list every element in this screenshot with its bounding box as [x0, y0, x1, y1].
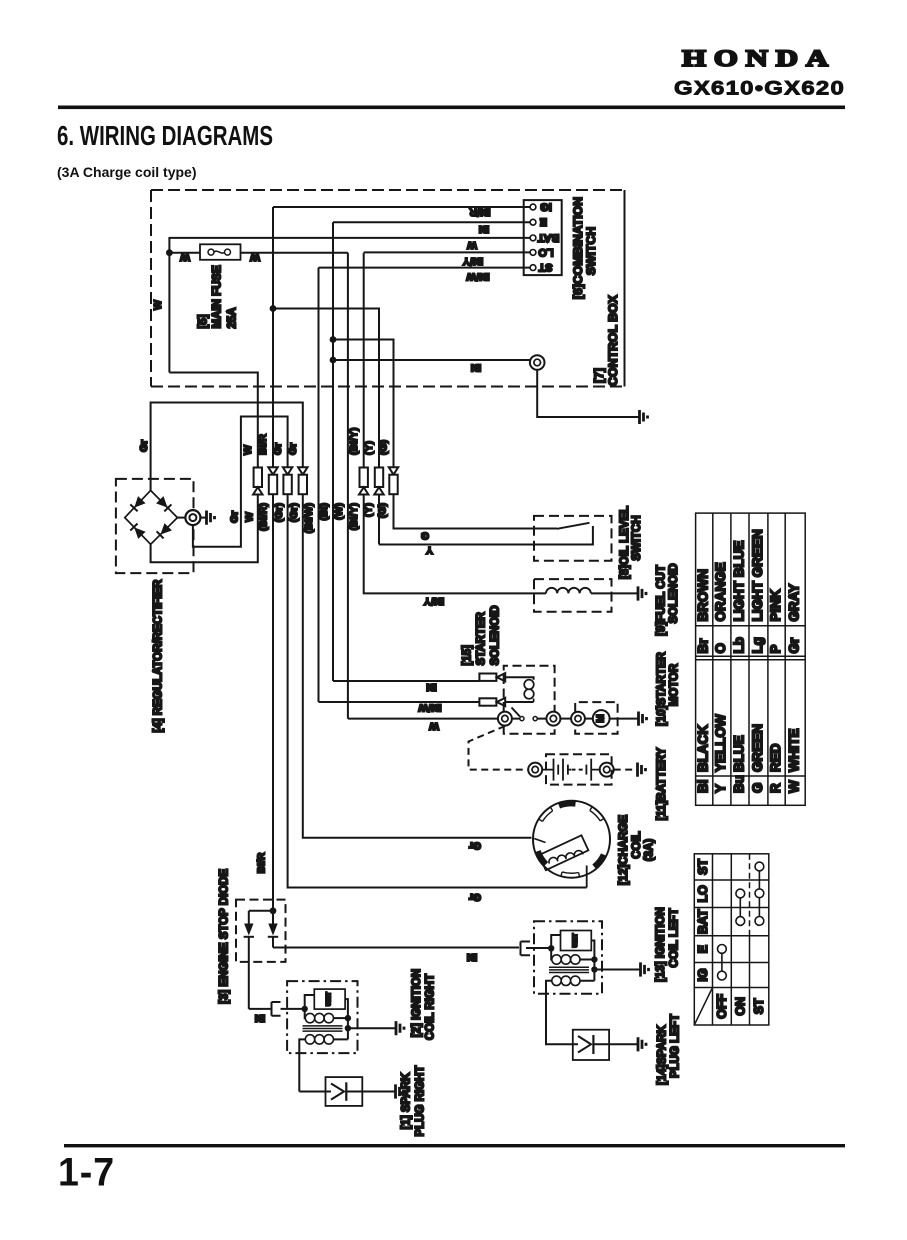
svg-text:BI/W: BI/W — [466, 271, 489, 283]
bullet connector Gr2 (triangle+rect) — [298, 467, 307, 474]
wire colour legend table — [696, 513, 806, 805]
spark plug left symbol — [578, 1036, 591, 1053]
bullet connector Gr1 (triangle+rect) — [283, 467, 292, 474]
diode link bar — [249, 910, 273, 912]
svg-text:6. WIRING DIAGRAMS: 6. WIRING DIAGRAMS — [57, 120, 273, 151]
svg-text:[7]: [7] — [592, 368, 606, 383]
wire BI into solenoid — [505, 677, 533, 680]
terminal E — [530, 219, 536, 225]
svg-text:IG: IG — [696, 968, 710, 981]
bullet connector BI/R (triangle+rect) — [268, 467, 277, 474]
engine stop diode [3] dashed box — [236, 900, 286, 962]
svg-text:[3] ENGINE STOP DIODE: [3] ENGINE STOP DIODE — [219, 868, 231, 1003]
svg-text:BAT: BAT — [537, 231, 559, 243]
UNIT right rail (coil right) — [345, 999, 348, 1039]
svg-text:Gr: Gr — [287, 443, 299, 455]
svg-text:(Gr): (Gr) — [288, 503, 300, 522]
svg-text:ST: ST — [538, 261, 552, 273]
svg-text:BI: BI — [255, 1012, 266, 1024]
svg-text:Y: Y — [713, 784, 728, 793]
bullet connector W (rect+triangle) — [254, 468, 262, 488]
svg-text:25A: 25A — [227, 307, 239, 328]
svg-text:[11]BATTERY: [11]BATTERY — [656, 747, 668, 820]
spark plug left box — [573, 1030, 609, 1060]
svg-text:YELLOW: YELLOW — [713, 714, 728, 772]
connector circle regulator — [185, 510, 200, 525]
svg-text:BAT: BAT — [696, 909, 710, 934]
svg-text:WHITE: WHITE — [787, 729, 802, 773]
switch table contacts ST — [755, 862, 764, 871]
svg-text:(Y): (Y) — [363, 441, 375, 455]
legend abbreviations row 2 — [696, 637, 802, 654]
wire E to BI — [333, 221, 530, 223]
wire LO to BI/Y — [364, 251, 531, 253]
svg-text:R: R — [768, 783, 783, 793]
diagonal corner — [694, 988, 712, 1026]
svg-text:(3A Charge coil type): (3A Charge coil type) — [57, 164, 197, 180]
solenoid blade — [512, 708, 520, 717]
svg-text:[2] IGNITION: [2] IGNITION — [411, 969, 423, 1037]
oil level switch blade — [557, 523, 590, 529]
wire BAT (W) — [169, 237, 530, 239]
svg-text:LIGHT BLUE: LIGHT BLUE — [731, 541, 746, 622]
switch table header labels — [696, 859, 766, 1019]
svg-text:BI: BI — [426, 681, 437, 693]
main fuse [5] body — [200, 244, 241, 259]
svg-text:COIL: COIL — [631, 831, 643, 858]
wire secondary to spark plug right — [299, 1091, 331, 1093]
spade connector BI (solenoid) — [479, 674, 496, 681]
starter motor [10] dashed box — [575, 702, 617, 734]
wire W left vertical — [168, 237, 170, 373]
spade connector (coil left) — [521, 942, 531, 956]
svg-text:Bl: Bl — [696, 780, 711, 794]
svg-text:BLUE: BLUE — [731, 735, 746, 772]
footer rule — [64, 1144, 845, 1147]
svg-text:BI: BI — [479, 223, 490, 235]
svg-text:COIL RIGHT: COIL RIGHT — [425, 974, 437, 1040]
wire BI connector to ground — [537, 370, 639, 417]
svg-text:Bu: Bu — [731, 775, 746, 793]
svg-text:SOLENOID: SOLENOID — [668, 563, 680, 623]
junction dots rail (coil right) — [345, 1015, 351, 1021]
svg-text:W: W — [429, 720, 439, 732]
svg-text:UNIT: UNIT — [573, 933, 579, 947]
ground (starter motor) — [639, 712, 647, 726]
svg-text:(BI/Y): (BI/Y) — [348, 503, 360, 530]
svg-text:E: E — [540, 216, 547, 228]
secondary coil right — [305, 1035, 314, 1044]
ground (coil left) — [641, 962, 649, 976]
regulator/rectifier [4] dashed box — [116, 479, 194, 573]
wire stubs to winding — [534, 839, 545, 843]
primary coil left — [550, 948, 553, 959]
svg-text:MAIN FUSE: MAIN FUSE — [212, 265, 224, 329]
wire Y lower vertical — [378, 495, 380, 545]
wire IG to BI/R — [273, 206, 530, 208]
svg-text:STARTER: STARTER — [476, 611, 488, 665]
wire dot to UNIT — [551, 935, 560, 948]
svg-text:BI/R: BI/R — [257, 434, 269, 455]
svg-text:ST: ST — [752, 998, 766, 1014]
junction dots rail — [591, 956, 597, 962]
wire diode2 to ignition coil left — [273, 947, 519, 949]
svg-text:Lb: Lb — [731, 637, 746, 654]
svg-text:(W): (W) — [333, 503, 345, 520]
svg-text:GX610•GX620: GX610•GX620 — [674, 78, 845, 100]
diode 2 — [272, 911, 274, 924]
ground (fuel cut solenoid) — [638, 586, 646, 600]
wire BI/Y vertical — [363, 253, 365, 468]
control box [7] dashed border — [151, 190, 625, 387]
svg-text:Gr: Gr — [469, 891, 481, 903]
junction dot BI to connector-branch — [330, 357, 337, 364]
svg-text:(G): (G) — [378, 440, 390, 455]
wire BI to starter solenoid — [333, 680, 479, 682]
svg-text:W: W — [180, 251, 190, 263]
svg-text:Gr: Gr — [229, 511, 241, 523]
svg-text:COIL LEFT: COIL LEFT — [669, 908, 681, 967]
svg-text:SWITCH: SWITCH — [631, 515, 643, 560]
svg-text:BI/R: BI/R — [256, 852, 268, 873]
svg-text:LIGHT GREEN: LIGHT GREEN — [750, 529, 765, 621]
svg-text:[5]: [5] — [198, 314, 210, 328]
svg-text:Gr: Gr — [469, 840, 481, 852]
svg-text:[12]CHARGE: [12]CHARGE — [618, 815, 630, 886]
wire W lower-left run — [169, 373, 257, 468]
bullet connector G (triangle+rect) — [389, 467, 398, 474]
wire terminal to M — [585, 718, 593, 720]
wire G branch horizontal — [333, 340, 394, 468]
battery terminal + — [528, 763, 542, 777]
dashed wire battery to ground — [614, 769, 637, 771]
svg-text:CONTROL BOX: CONTROL BOX — [606, 294, 620, 385]
svg-text:P: P — [768, 644, 783, 653]
ground (spark plug left) — [638, 1037, 646, 1051]
svg-text:Lg: Lg — [750, 637, 765, 654]
svg-text:BROWN: BROWN — [696, 569, 711, 622]
svg-text:IG: IG — [540, 201, 552, 213]
svg-text:Gr: Gr — [787, 637, 802, 654]
svg-text:[6]COMBINATION: [6]COMBINATION — [571, 197, 585, 299]
svg-text:[13] IGNITION: [13] IGNITION — [655, 907, 667, 982]
bullet connector Y (rect+triangle) — [375, 468, 383, 488]
wire bridge right to connector — [177, 517, 186, 519]
ignition coil left [13] box — [534, 921, 602, 994]
wire Gr second run (reg connector to connector row) — [193, 417, 288, 547]
wire coil left to ground — [594, 969, 640, 971]
spark plug right box — [326, 1077, 363, 1106]
svg-text:ORANGE: ORANGE — [713, 562, 728, 621]
svg-text:W: W — [250, 251, 260, 263]
svg-text:[10]STARTER: [10]STARTER — [656, 651, 668, 726]
svg-text:BI: BI — [467, 951, 478, 963]
flywheel magnet arcs (filled) — [538, 804, 604, 867]
legend abbreviations row 1 — [696, 775, 802, 793]
svg-text:PINK: PINK — [768, 589, 783, 622]
svg-text:(Gr): (Gr) — [273, 503, 285, 522]
svg-text:(BI): (BI) — [318, 503, 330, 521]
ground (control box BI) — [640, 410, 648, 424]
header rule — [58, 106, 845, 110]
svg-text:E: E — [696, 945, 710, 953]
wire Y branch horizontal — [273, 309, 379, 468]
svg-text:OFF: OFF — [715, 993, 729, 1018]
svg-text:[8]OIL LEVEL: [8]OIL LEVEL — [619, 506, 631, 579]
junction dot W-fuse — [166, 249, 173, 256]
wire connector to ground — [200, 517, 206, 519]
ground (spark plug right) — [396, 1084, 404, 1098]
battery plates — [542, 759, 571, 781]
core lines (coil right) — [303, 1026, 343, 1031]
svg-text:Gr: Gr — [272, 443, 284, 455]
connector circle BI — [530, 355, 545, 370]
fuse wire — [169, 252, 348, 254]
charge coil [12] flywheel circle — [533, 801, 610, 878]
solenoid contact right — [533, 717, 537, 721]
wire Gr bottom to charge coil — [288, 495, 587, 888]
svg-text:Br: Br — [696, 638, 711, 654]
wire dot to UNIT (right) — [305, 995, 315, 1009]
svg-text:M: M — [596, 714, 607, 722]
terminal ST — [530, 265, 536, 271]
svg-text:O: O — [713, 643, 728, 654]
svg-text:W: W — [152, 300, 164, 310]
svg-text:LO: LO — [696, 885, 710, 903]
primary coil right — [304, 1009, 307, 1018]
svg-text:BI/W: BI/W — [418, 702, 441, 714]
ground (coil right) — [396, 1021, 404, 1035]
legend colour names row 1 — [696, 714, 802, 772]
svg-text:[14]SPARK: [14]SPARK — [657, 1024, 669, 1085]
spade connector (coil right) — [272, 1002, 281, 1016]
terminal IG — [530, 204, 536, 210]
wire Gr top-left run (bridge top to connector) — [151, 403, 303, 491]
svg-text:1-7: 1-7 — [58, 1151, 115, 1195]
starter solenoid terminal left — [498, 712, 512, 726]
diode top-left — [134, 496, 145, 508]
wire Gr top to charge coil — [303, 495, 532, 838]
svg-text:SOLENOID: SOLENOID — [490, 605, 502, 665]
junction dot BI/R to Y-branch — [270, 305, 277, 312]
svg-text:BLACK: BLACK — [696, 725, 711, 772]
svg-text:PLUG RIGHT: PLUG RIGHT — [415, 1066, 427, 1137]
svg-text:[1] SPARK: [1] SPARK — [401, 1072, 413, 1129]
wire diode1 to ignition coil right — [249, 1008, 271, 1010]
wire M to ground — [610, 718, 638, 720]
svg-text:[9]FUEL CUT: [9]FUEL CUT — [656, 565, 668, 636]
svg-text:G: G — [421, 530, 429, 542]
wire BI/W into solenoid — [505, 701, 533, 703]
junction dot (coil right input) — [302, 1006, 308, 1012]
battery [11] dashed box — [546, 754, 612, 784]
diode 1 — [248, 911, 250, 924]
junction dot (coil left input) — [548, 945, 554, 951]
svg-text:G: G — [750, 782, 765, 793]
wire BI/R vertical — [272, 207, 274, 468]
spark plug right symbol — [331, 1084, 344, 1100]
junction dot diode link — [270, 907, 277, 914]
ground (regulator) — [207, 511, 215, 525]
svg-text:W: W — [242, 445, 254, 455]
svg-text:(3A): (3A) — [644, 839, 656, 862]
wire solenoid to motor — [560, 718, 571, 720]
wire G lower vertical — [394, 495, 558, 529]
diode bottom-right — [161, 523, 172, 534]
wire BI/W to starter solenoid — [319, 701, 480, 703]
svg-text:PLUG LEFT: PLUG LEFT — [670, 1014, 682, 1078]
svg-text:W: W — [787, 780, 802, 793]
svg-text:[15]: [15] — [462, 645, 474, 666]
wire BI to connector circle — [333, 359, 530, 361]
svg-text:ON: ON — [733, 997, 747, 1016]
UNIT right rail — [591, 941, 594, 981]
contact link wires — [512, 718, 547, 720]
switch table contacts OFF — [718, 862, 764, 980]
svg-text:RED: RED — [768, 743, 783, 772]
svg-text:BI/R: BI/R — [469, 206, 490, 218]
svg-text:HONDA: HONDA — [682, 46, 836, 72]
solenoid coil — [524, 680, 534, 690]
svg-text:Y: Y — [426, 544, 433, 556]
svg-text:BI/Y: BI/Y — [424, 595, 444, 607]
svg-text:LO: LO — [538, 246, 554, 258]
spade connector BI/W (solenoid) — [479, 698, 496, 705]
UNIT box (left coil) — [561, 931, 592, 951]
combination switch position table — [694, 854, 769, 1025]
diode bottom-left — [134, 527, 145, 539]
charge coil winding (rotated) — [539, 835, 589, 871]
svg-text:[4] REGULATOR/RECTIFIER: [4] REGULATOR/RECTIFIER — [153, 579, 165, 733]
wire W fuse down-run — [347, 253, 349, 719]
terminal BAT — [530, 235, 536, 241]
ignition coil right [2] box — [287, 981, 357, 1053]
solenoid contact left — [520, 717, 524, 721]
svg-text:W: W — [467, 239, 477, 251]
terminal LO — [530, 250, 536, 256]
svg-text:SWITCH: SWITCH — [584, 227, 598, 276]
svg-text:GRAY: GRAY — [787, 584, 802, 622]
starter motor M circle — [593, 710, 610, 727]
svg-text:(BI/W): (BI/W) — [303, 503, 315, 533]
bullet connector BI/Y (rect+triangle) — [360, 468, 368, 488]
oil level switch [8] dashed box — [534, 516, 612, 561]
svg-text:BI/Y: BI/Y — [463, 255, 483, 267]
wire ST to BI/W — [319, 267, 531, 269]
dashed jumper solenoid to battery — [469, 726, 529, 770]
wire secondary to spark plug left — [546, 994, 578, 1045]
wire W below connector to bridge — [151, 494, 258, 562]
wire solenoid to ground — [591, 592, 638, 594]
starter solenoid [15] dashed box — [504, 666, 555, 734]
bridge rectifier diamond — [125, 490, 178, 544]
starter solenoid terminal right — [546, 712, 560, 726]
svg-text:Gr: Gr — [138, 440, 150, 452]
UNIT box (right coil) — [314, 989, 345, 1009]
wire BI/Y lower vertical — [364, 495, 546, 594]
wire BI/W vertical — [318, 268, 320, 702]
ground (battery) — [638, 763, 646, 777]
combination switch [6] box — [524, 200, 562, 275]
battery terminal - — [600, 763, 614, 777]
svg-text:W: W — [244, 512, 256, 522]
core lines (coil left) — [549, 967, 589, 972]
flywheel magnet arcs (outlined) — [539, 807, 604, 877]
diode top-right — [156, 496, 167, 508]
fuel cut solenoid coil — [546, 588, 591, 594]
switch table contacts ON — [736, 889, 745, 898]
wire coil right to ground — [348, 1027, 396, 1029]
legend colour names row 2 — [696, 529, 802, 621]
svg-text:(BI/R): (BI/R) — [258, 503, 270, 531]
svg-text:(BI/Y): (BI/Y) — [348, 428, 360, 455]
svg-text:GREEN: GREEN — [750, 724, 765, 772]
svg-text:ST: ST — [696, 859, 710, 875]
starter motor terminal — [571, 712, 585, 726]
secondary coil left — [552, 976, 561, 985]
svg-text:MOTOR: MOTOR — [669, 663, 681, 706]
fuel cut solenoid [9] dashed box — [534, 579, 612, 612]
svg-text:BI: BI — [471, 362, 482, 374]
wire BI vertical — [332, 222, 334, 681]
junction dot BI to G-branch — [330, 336, 337, 343]
oil level switch loop corner — [379, 526, 593, 545]
wire W to solenoid terminal — [348, 718, 498, 720]
svg-text:UNIT: UNIT — [327, 992, 333, 1006]
